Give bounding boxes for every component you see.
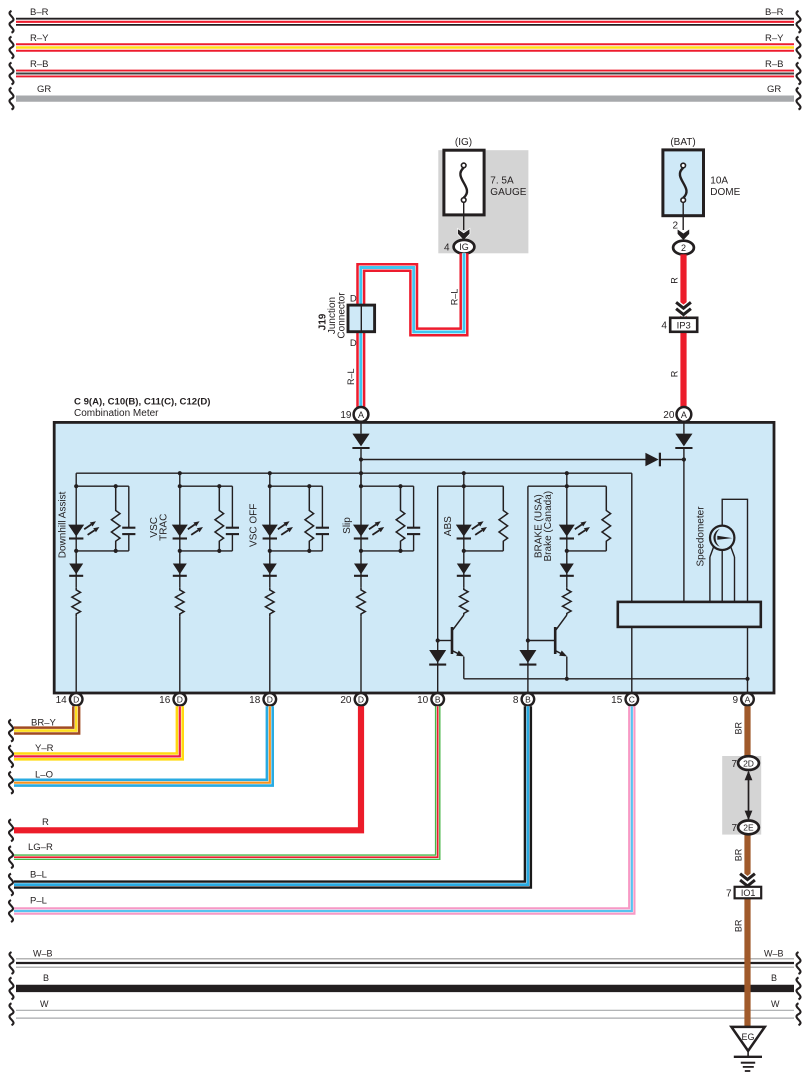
svg-text:Downhill Assist: Downhill Assist bbox=[57, 491, 68, 558]
svg-text:R: R bbox=[42, 817, 49, 828]
svg-text:B: B bbox=[43, 973, 49, 983]
svg-text:R–B: R–B bbox=[765, 59, 783, 70]
svg-text:TRAC: TRAC bbox=[159, 514, 170, 541]
svg-text:R–Y: R–Y bbox=[30, 33, 49, 44]
svg-text:Y–R: Y–R bbox=[35, 743, 54, 754]
svg-text:B: B bbox=[435, 695, 441, 705]
svg-text:A: A bbox=[745, 695, 751, 705]
svg-text:D: D bbox=[177, 695, 183, 705]
svg-text:C: C bbox=[629, 695, 635, 705]
svg-text:Combination Meter: Combination Meter bbox=[74, 408, 159, 419]
svg-text:W–B: W–B bbox=[764, 949, 784, 959]
svg-text:B–R: B–R bbox=[765, 7, 784, 18]
svg-text:BR: BR bbox=[733, 848, 743, 861]
svg-text:GR: GR bbox=[767, 84, 781, 95]
svg-text:W–B: W–B bbox=[33, 949, 53, 959]
svg-text:W: W bbox=[40, 999, 49, 1009]
svg-text:B–R: B–R bbox=[30, 7, 49, 18]
svg-text:B: B bbox=[771, 973, 777, 983]
svg-text:Speedometer: Speedometer bbox=[696, 506, 707, 567]
svg-text:2E: 2E bbox=[743, 823, 754, 833]
svg-text:R–B: R–B bbox=[30, 59, 48, 70]
svg-text:A: A bbox=[681, 410, 687, 420]
svg-text:ABS: ABS bbox=[443, 516, 454, 536]
svg-text:BR: BR bbox=[733, 722, 743, 735]
svg-text:D: D bbox=[73, 695, 79, 705]
svg-text:(BAT): (BAT) bbox=[670, 137, 695, 148]
svg-text:18: 18 bbox=[249, 695, 261, 706]
svg-text:R–L: R–L bbox=[449, 289, 459, 306]
svg-text:GR: GR bbox=[37, 84, 51, 95]
svg-text:DOME: DOME bbox=[710, 187, 740, 198]
svg-text:C 9(A), C10(B), C11(C), C12(D): C 9(A), C10(B), C11(C), C12(D) bbox=[74, 397, 210, 408]
svg-text:7: 7 bbox=[731, 823, 737, 834]
svg-text:R–Y: R–Y bbox=[765, 33, 784, 44]
svg-text:10: 10 bbox=[417, 695, 429, 706]
svg-text:Slip: Slip bbox=[342, 517, 353, 534]
svg-text:A: A bbox=[358, 410, 364, 420]
svg-text:VSC OFF: VSC OFF bbox=[249, 504, 260, 547]
svg-text:2D: 2D bbox=[743, 758, 754, 768]
svg-text:EG: EG bbox=[741, 1032, 754, 1042]
svg-text:10A: 10A bbox=[710, 175, 728, 186]
svg-text:2: 2 bbox=[681, 243, 686, 253]
svg-text:4: 4 bbox=[661, 321, 667, 332]
svg-text:16: 16 bbox=[159, 695, 171, 706]
svg-text:IG: IG bbox=[459, 242, 469, 252]
svg-text:7. 5A: 7. 5A bbox=[490, 175, 514, 186]
svg-text:P–L: P–L bbox=[30, 896, 47, 907]
svg-text:15: 15 bbox=[611, 695, 623, 706]
svg-text:9: 9 bbox=[732, 695, 738, 706]
svg-text:B–L: B–L bbox=[30, 870, 47, 881]
svg-text:20: 20 bbox=[340, 695, 352, 706]
svg-text:20: 20 bbox=[663, 410, 675, 421]
svg-text:D: D bbox=[358, 695, 364, 705]
svg-text:19: 19 bbox=[340, 410, 352, 421]
svg-text:L–O: L–O bbox=[35, 769, 53, 780]
svg-text:W: W bbox=[771, 999, 780, 1009]
svg-text:R–L: R–L bbox=[346, 369, 356, 386]
svg-text:D: D bbox=[350, 293, 357, 304]
svg-text:8: 8 bbox=[513, 695, 519, 706]
svg-text:7: 7 bbox=[726, 889, 732, 900]
svg-text:Brake (Canada): Brake (Canada) bbox=[543, 491, 554, 562]
svg-text:D: D bbox=[267, 695, 273, 705]
svg-text:7: 7 bbox=[731, 759, 737, 770]
svg-text:GAUGE: GAUGE bbox=[490, 187, 526, 198]
svg-text:R: R bbox=[669, 277, 679, 284]
svg-text:R: R bbox=[669, 370, 679, 377]
svg-text:IO1: IO1 bbox=[741, 888, 756, 898]
svg-text:(IG): (IG) bbox=[455, 137, 472, 148]
svg-text:BR–Y: BR–Y bbox=[31, 717, 56, 728]
svg-text:4: 4 bbox=[444, 242, 450, 253]
svg-text:14: 14 bbox=[56, 695, 68, 706]
svg-text:D: D bbox=[350, 338, 357, 349]
svg-text:LG–R: LG–R bbox=[28, 842, 53, 853]
svg-text:B: B bbox=[525, 695, 531, 705]
svg-text:Connector: Connector bbox=[336, 292, 347, 339]
svg-text:BR: BR bbox=[733, 919, 743, 932]
svg-text:IP3: IP3 bbox=[677, 321, 691, 332]
